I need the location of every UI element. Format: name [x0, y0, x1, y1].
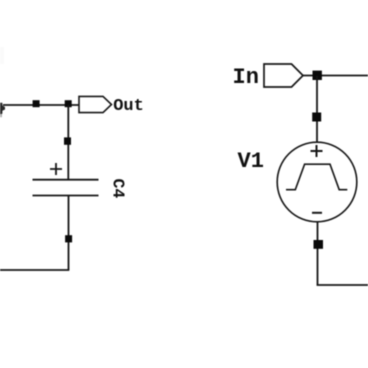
port In symbol — [264, 64, 303, 87]
wire vertical from node to capacitor — [67, 105, 69, 180]
V1 plus sign — [311, 145, 323, 157]
clipped label fragment at left edge — [0, 103, 5, 114]
port Out symbol — [79, 96, 112, 112]
V1 trapezoid waveform — [286, 164, 347, 190]
capacitor C4 top plate — [33, 179, 99, 181]
node junction 2 — [65, 100, 72, 107]
voltage source V1 circle — [277, 142, 357, 222]
svg-text:Out: Out — [113, 97, 144, 116]
wire from In port to right edge — [303, 75, 368, 77]
faint scan band top-left — [0, 47, 4, 64]
wire vertical below source — [317, 222, 319, 285]
svg-text:In: In — [233, 65, 259, 90]
svg-text:C4: C4 — [109, 179, 128, 199]
wire left horizontal to Out — [3, 104, 79, 106]
wire vertical In node to source — [316, 76, 318, 143]
node junction 5 — [313, 71, 322, 80]
capacitor C4 bottom plate — [33, 195, 99, 197]
svg-text:V1: V1 — [238, 149, 264, 174]
V1 minus sign — [312, 212, 322, 214]
node junction 1 — [33, 100, 40, 107]
wire bottom left horizontal — [0, 269, 69, 271]
node junction 6 — [312, 113, 321, 122]
node junction 3 — [64, 137, 71, 144]
node junction 4 — [65, 235, 72, 242]
wire bottom right horizontal — [317, 284, 368, 286]
wire vertical below capacitor — [68, 196, 70, 271]
capacitor C4 plus sign — [50, 163, 62, 175]
node junction 7 — [314, 240, 324, 249]
